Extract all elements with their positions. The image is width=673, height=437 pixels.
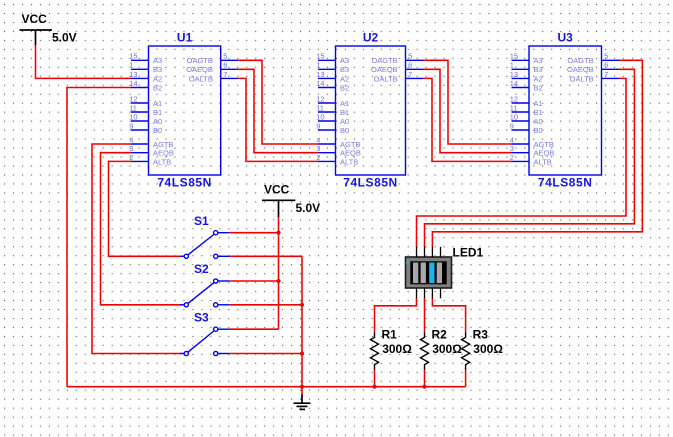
svg-text:AEQB: AEQB [534,149,555,158]
svg-text:OAEQB: OAEQB [567,65,594,74]
svg-text:9: 9 [129,121,133,130]
LED1 bottom pins (4 leads) [417,288,441,298]
wire U2 pin 6 to U3 pin 3 [423,69,512,152]
svg-text:1: 1 [129,61,133,70]
IC U3 pin 12 (A1) stub + number + name [510,94,543,108]
IC U3 pin 5 (OAGTB) stub + number + name [567,52,619,65]
svg-text:A0: A0 [534,117,543,126]
svg-text:5: 5 [604,52,608,61]
junction S3 throw / ground bus [300,351,304,355]
svg-text:B0: B0 [153,126,162,135]
svg-text:B3: B3 [534,65,543,74]
svg-text:A3: A3 [534,56,543,65]
switch S3 pole + throws + arm [180,327,230,356]
svg-text:4: 4 [316,135,320,144]
svg-text:15: 15 [510,52,518,61]
junction R2 / ground rail [422,385,426,389]
IC U2 part value label 74LS85N [343,176,398,190]
wire S1 top throw to VCC bus [230,232,279,234]
wire U1 pin 3 (AEQB) to S2 pole [101,153,182,305]
wire S1 bottom throw to ground bus [230,255,302,257]
svg-text:12: 12 [316,94,324,103]
svg-text:B3: B3 [340,65,349,74]
svg-text:12: 12 [510,94,518,103]
svg-text:13: 13 [316,70,324,79]
resistor R1 reference label [382,327,398,341]
svg-text:300Ω: 300Ω [473,342,503,356]
svg-text:ALTB: ALTB [534,157,552,166]
svg-text:VCC: VCC [22,12,48,26]
svg-text:A0: A0 [340,117,349,126]
junction R1 / ground rail [372,385,376,389]
svg-text:OALTB: OALTB [374,74,398,83]
svg-text:7: 7 [604,70,608,79]
LED1 reference label [453,246,484,260]
switch S2 pole + throws + arm [180,279,230,307]
svg-text:B0: B0 [340,126,349,135]
svg-text:AGTB: AGTB [153,140,173,149]
IC U2 pin 7 (OALTB) stub + number + name [374,70,423,84]
svg-text:B1: B1 [340,108,349,117]
resistor R2 reference label [432,327,448,341]
svg-text:OALTB: OALTB [189,74,213,83]
svg-text:A2: A2 [340,74,349,83]
IC U2 pin 6 (OAEQB) stub + number + name [371,61,423,75]
wire R2 bottom to ground rail [424,370,426,387]
svg-text:1: 1 [316,61,320,70]
IC U2 pin 3 (AEQB) stub + number + name [316,144,361,158]
IC U1 pin 2 (ALTB) stub + number + name [129,153,171,167]
svg-text:6: 6 [223,61,227,70]
svg-text:7: 7 [408,70,412,79]
IC U1 pin 9 (B0) stub + number + name [129,121,162,135]
wire U1 pin 2 (ALTB) to S1 pole [109,161,182,256]
IC U3 pin 6 (OAEQB) stub + number + name [567,61,619,75]
IC U1 pin 14 (B2) stub + number + name [129,79,162,93]
svg-text:U1: U1 [177,30,193,44]
wire U1 pin 6 to U2 pin 3 [238,69,318,152]
svg-text:B0: B0 [534,126,543,135]
svg-text:S2: S2 [194,262,209,276]
svg-text:7: 7 [223,70,227,79]
switch S1 label [194,214,209,228]
svg-text:10: 10 [316,112,324,121]
svg-text:LED1: LED1 [453,246,484,260]
svg-text:11: 11 [129,103,137,112]
svg-text:R2: R2 [432,327,448,341]
svg-text:A2: A2 [534,74,543,83]
IC U1 pin 15 (A3) stub + number + name [129,52,162,65]
svg-text:A1: A1 [340,99,349,108]
svg-text:6: 6 [604,61,608,70]
svg-text:AEQB: AEQB [340,149,361,158]
svg-text:3: 3 [510,144,514,153]
wire S3 top throw to VCC bus [230,328,279,330]
svg-text:10: 10 [510,112,518,121]
svg-text:74LS85N: 74LS85N [538,176,593,190]
svg-text:AEQB: AEQB [153,149,174,158]
IC U1 pin 6 (OAEQB) stub + number + name [186,61,238,75]
svg-text:9: 9 [510,121,514,130]
svg-text:A1: A1 [153,99,162,108]
wire LED1 cathode 1 to R1 top [375,298,417,332]
resistor R3 reference label [473,327,489,341]
svg-text:13: 13 [510,70,518,79]
svg-text:A3: A3 [153,56,162,65]
svg-text:ALTB: ALTB [340,157,358,166]
svg-text:R1: R1 [382,327,398,341]
power symbol VCC (middle, above switches), node VCC [262,183,320,217]
svg-text:ALTB: ALTB [153,157,171,166]
svg-text:B1: B1 [534,108,543,117]
svg-text:3: 3 [129,144,133,153]
wire U3 pin 6 to LED1 anode 2 [425,69,635,247]
wire U3 pin 5 to LED1 anode 3 [432,60,642,247]
IC U3 pin 15 (A3) stub + number + name [510,52,543,65]
wire U1 pin 4 (AGTB) to S3 pole [92,144,182,354]
svg-text:300Ω: 300Ω [432,342,462,356]
IC U2 pin 2 (ALTB) stub + number + name [316,153,358,167]
junction S1 throw / VCC bus [276,231,280,235]
IC U3 pin 10 (A0) stub + number + name [510,112,543,126]
switch S3 label [194,311,209,325]
wire S2 top throw to VCC bus [230,280,279,282]
svg-text:A3: A3 [340,56,349,65]
svg-text:5: 5 [223,52,227,61]
power symbol VCC (top-left), node VCC [20,12,77,45]
IC U2 reference designator label [363,30,379,44]
ground symbol (node GND) [294,395,311,410]
junction S2 throw / ground bus [300,303,304,307]
IC U3 pin 7 (OALTB) stub + number + name [570,70,619,84]
IC U2 pin 4 (AGTB) stub + number + name [316,135,360,149]
IC U3 pin 13 (A2) stub + number + name [510,70,543,84]
svg-text:3: 3 [316,144,320,153]
svg-text:R3: R3 [473,327,489,341]
svg-text:S3: S3 [194,311,209,325]
svg-text:OAGTB: OAGTB [371,56,397,65]
svg-text:AGTB: AGTB [340,140,360,149]
svg-text:A: A [406,260,410,266]
resistor R1 (300 ohm) zigzag [371,332,379,370]
svg-text:15: 15 [129,52,137,61]
IC U3 pin 11 (B1) stub + number + name [510,103,543,117]
svg-text:A0: A0 [153,117,162,126]
wire U2 pin 7 to U3 pin 2 [423,78,512,161]
LED1 top pins (4 leads) [417,247,441,257]
svg-text:74LS85N: 74LS85N [343,176,398,190]
IC U2 pin 13 (A2) stub + number + name [316,70,349,84]
svg-text:A1: A1 [534,99,543,108]
LED bar-graph LED1 body [406,257,452,288]
wire U3 pin 7 to LED1 anode 1 [417,78,627,247]
wire ground rail (bottom horizontal to R1/R2/R3) [67,386,466,388]
svg-text:11: 11 [316,103,324,112]
svg-text:13: 13 [129,70,137,79]
svg-text:B2: B2 [534,83,543,92]
svg-text:OAGTB: OAGTB [187,56,213,65]
svg-text:300Ω: 300Ω [382,342,412,356]
svg-text:U3: U3 [558,30,574,44]
IC U3 74LS85N box [529,46,602,175]
IC U1 pin 7 (OALTB) stub + number + name [189,70,238,84]
junction ground bus / ground rail [300,385,304,389]
wire S2 bottom throw to ground bus [230,304,302,306]
wire LED1 cathode 3 to R3 top [432,298,465,332]
wire U2 pin 5 to U3 pin 4 [423,60,512,144]
wire U1 pin 7 to U2 pin 2 [238,78,318,161]
wire VCC to U1 pin 13 (A2) [36,45,132,78]
svg-text:14: 14 [316,79,324,88]
IC U1 pin 11 (B1) stub + number + name [129,103,162,117]
svg-text:S1: S1 [194,214,209,228]
svg-text:5: 5 [408,52,412,61]
svg-text:10: 10 [129,112,137,121]
svg-text:5.0V: 5.0V [52,30,77,44]
switch S1 pole + throws + arm [180,231,230,259]
IC U1 pin 12 (A1) stub + number + name [129,94,162,108]
IC U2 pin 10 (A0) stub + number + name [316,112,349,126]
svg-text:VCC: VCC [264,183,290,197]
svg-text:12: 12 [129,94,137,103]
wire S3 bottom throw to ground bus [230,353,302,355]
IC U3 pin 3 (AEQB) stub + number + name [510,144,555,158]
resistor R3 value label 300 ohm [473,342,503,356]
svg-text:4: 4 [129,135,133,144]
svg-text:14: 14 [129,79,137,88]
svg-text:9: 9 [316,121,320,130]
wire VCC bus down switch throws [278,217,280,329]
IC U1 74LS85N box [149,46,221,175]
svg-text:OALTB: OALTB [570,74,594,83]
IC U3 part value label 74LS85N [538,176,593,190]
wire R1 bottom to ground rail [374,370,376,387]
IC U2 pin 5 (OAGTB) stub + number + name [371,52,423,65]
IC U2 pin 1 (B3) stub + number + name [316,61,349,75]
IC U2 pin 14 (B2) stub + number + name [316,79,349,93]
resistor R2 value label 300 ohm [432,342,462,356]
IC U1 pin 1 (B3) stub + number + name [129,61,162,75]
wire switch ground bus vertical [301,256,303,394]
svg-text:AGTB: AGTB [534,140,554,149]
IC U3 reference designator label [558,30,574,44]
svg-text:1: 1 [510,61,514,70]
IC U2 pin 11 (B1) stub + number + name [316,103,349,117]
IC U2 pin 9 (B0) stub + number + name [316,121,349,135]
svg-text:U2: U2 [363,30,379,44]
IC U3 pin 9 (B0) stub + number + name [510,121,543,135]
svg-text:OAEQB: OAEQB [186,65,213,74]
IC U3 pin 1 (B3) stub + number + name [510,61,543,75]
resistor R2 (300 ohm) zigzag [421,332,429,370]
svg-text:B1: B1 [153,108,162,117]
svg-text:B2: B2 [340,83,349,92]
IC U3 pin 4 (AGTB) stub + number + name [510,135,554,149]
svg-text:A2: A2 [153,74,162,83]
IC U1 pin 3 (AEQB) stub + number + name [129,144,174,158]
svg-text:OAGTB: OAGTB [567,56,593,65]
svg-text:11: 11 [510,103,518,112]
svg-text:2: 2 [316,153,320,162]
wire R3 bottom to ground rail [465,370,467,387]
switch S2 label [194,262,209,276]
IC U2 pin 12 (A1) stub + number + name [316,94,349,108]
IC U1 pin 4 (AGTB) stub + number + name [129,135,173,149]
svg-text:OAEQB: OAEQB [371,65,398,74]
wire U1 pin 14 (B2) down to ground rail [67,88,131,387]
IC U1 part value label 74LS85N [157,176,212,190]
IC U2 74LS85N box [336,46,406,175]
wire U1 pin 5 to U2 pin 4 [238,60,318,144]
svg-text:B3: B3 [153,65,162,74]
resistor R3 (300 ohm) zigzag [462,332,470,370]
svg-text:14: 14 [510,79,518,88]
wire LED1 cathode 2 to R2 top [424,298,426,332]
IC U1 reference designator label [177,30,193,44]
IC U3 pin 2 (ALTB) stub + number + name [510,153,552,167]
IC U2 pin 15 (A3) stub + number + name [316,52,349,65]
svg-text:4: 4 [510,135,514,144]
svg-text:2: 2 [129,153,133,162]
svg-text:5.0V: 5.0V [296,201,321,215]
svg-text:6: 6 [408,61,412,70]
svg-text:15: 15 [316,52,324,61]
IC U1 pin 5 (OAGTB) stub + number + name [187,52,239,65]
resistor R1 value label 300 ohm [382,342,412,356]
IC U3 pin 14 (B2) stub + number + name [510,79,543,93]
IC U1 pin 10 (A0) stub + number + name [129,112,162,126]
IC U1 pin 13 (A2) stub + number + name [129,70,162,84]
svg-text:B2: B2 [153,83,162,92]
junction S2 throw / VCC bus [276,279,280,283]
svg-text:2: 2 [510,153,514,162]
svg-text:74LS85N: 74LS85N [157,176,212,190]
